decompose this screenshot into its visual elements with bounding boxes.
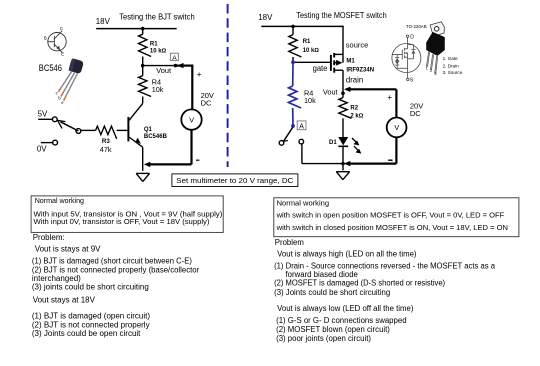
svg-text:A: A bbox=[299, 123, 304, 130]
svg-text:e: e bbox=[61, 100, 64, 105]
svg-text:gate: gate bbox=[313, 64, 328, 73]
svg-text:B: B bbox=[44, 36, 47, 41]
node 0V terminal bbox=[37, 140, 58, 153]
svg-text:c: c bbox=[56, 90, 58, 95]
svg-text:10k: 10k bbox=[152, 85, 164, 94]
svg-text:Vout is always high (LED on a: Vout is always high (LED on all the time… bbox=[277, 249, 417, 258]
svg-text:47k: 47k bbox=[100, 145, 112, 154]
svg-text:Problem: Problem bbox=[275, 238, 304, 247]
svg-text:(3) poor joints (open circuit): (3) poor joints (open circuit) bbox=[276, 334, 371, 343]
note box: MOSFET normal working bbox=[274, 198, 519, 237]
svg-text:IRF9Z34N: IRF9Z34N bbox=[346, 67, 374, 73]
svg-text:S: S bbox=[410, 78, 414, 84]
transistor photo BC546 (TO-92 package) bbox=[39, 58, 84, 105]
wire: 18V rail (right) bbox=[261, 25, 343, 29]
voltmeter V (right) bbox=[387, 89, 424, 163]
wire: voltmeter - lead (right) with arrow bbox=[344, 160, 397, 166]
svg-text:V: V bbox=[394, 123, 399, 132]
svg-text:2 kΩ: 2 kΩ bbox=[350, 114, 363, 120]
svg-text:R1: R1 bbox=[150, 41, 158, 47]
svg-text:D: D bbox=[410, 34, 414, 40]
wire: gate wire bbox=[293, 61, 330, 63]
svg-text:BC546: BC546 bbox=[39, 63, 62, 73]
svg-text:Set multimeter to 20 V range,: Set multimeter to 20 V range, DC bbox=[176, 176, 293, 185]
svg-text:2. Drain: 2. Drain bbox=[443, 63, 460, 68]
svg-text:18V: 18V bbox=[258, 13, 273, 22]
svg-text:(2) MOSFET is damaged (D-S sho: (2) MOSFET is damaged (D-S shorted or re… bbox=[274, 278, 445, 287]
svg-text:(1) BJT is damaged (open circu: (1) BJT is damaged (open circuit) bbox=[32, 312, 150, 321]
svg-text:2: 2 bbox=[430, 68, 433, 73]
BJT symbol icon (BC546) bbox=[48, 31, 66, 53]
svg-text:DC: DC bbox=[201, 99, 212, 108]
transistor Q1 BC546B bbox=[128, 103, 167, 147]
node A box (left) bbox=[170, 53, 178, 62]
svg-text:DC: DC bbox=[410, 109, 421, 118]
svg-text:Testing the MOSFET switch: Testing the MOSFET switch bbox=[296, 11, 386, 20]
wire: emitter to ground (left) bbox=[142, 147, 144, 171]
LED D1 bbox=[329, 137, 361, 154]
resistor R3 47k bbox=[81, 126, 128, 154]
divider dashed line bbox=[227, 4, 229, 167]
text: BJT problems bbox=[32, 233, 200, 338]
svg-text:R2: R2 bbox=[350, 105, 358, 111]
svg-text:(3) joints could be short circ: (3) joints could be short circuiting bbox=[32, 283, 149, 292]
resistor R1 (right) bbox=[289, 26, 320, 61]
svg-text:Vout is stays at 9V: Vout is stays at 9V bbox=[35, 245, 101, 254]
svg-text:1. Gate: 1. Gate bbox=[443, 56, 459, 61]
wire: voltmeter - lead (left) with arrow bbox=[144, 130, 200, 167]
switch (right) bbox=[279, 127, 303, 164]
wire: LED to bottom rail bbox=[342, 146, 344, 170]
svg-text:3: 3 bbox=[434, 71, 437, 76]
svg-text:With input 0V, transistor is O: With input 0V, transistor is OFF, Vout =… bbox=[34, 218, 210, 226]
node 5V terminal bbox=[38, 110, 58, 122]
resistor R1 (left) bbox=[139, 29, 167, 66]
svg-text:18V: 18V bbox=[96, 17, 111, 26]
svg-text:Q1: Q1 bbox=[144, 127, 153, 133]
svg-text:drain: drain bbox=[346, 75, 363, 84]
node A box (right) bbox=[297, 121, 306, 130]
svg-text:With input 5V, transistor is O: With input 5V, transistor is ON , Vout =… bbox=[34, 210, 223, 218]
svg-text:TO-220AB: TO-220AB bbox=[406, 24, 427, 29]
svg-text:10k: 10k bbox=[304, 96, 316, 105]
svg-text:Testing the BJT switch: Testing the BJT switch bbox=[119, 11, 195, 21]
svg-text:with switch in closed position: with switch in closed position MOSFET is… bbox=[276, 223, 508, 232]
svg-text:V: V bbox=[189, 115, 194, 124]
svg-text:0V: 0V bbox=[37, 145, 47, 154]
svg-text:interchanged): interchanged) bbox=[32, 274, 81, 283]
svg-text:Vout: Vout bbox=[323, 88, 338, 97]
wire: 18V rail (left) bbox=[96, 27, 177, 31]
svg-text:Problem:: Problem: bbox=[33, 233, 65, 242]
svg-text:Vout stays at 18V: Vout stays at 18V bbox=[33, 296, 96, 305]
ground (left) bbox=[136, 173, 149, 181]
svg-text:5V: 5V bbox=[38, 110, 48, 119]
node Vout (right) + voltmeter + lead bbox=[323, 87, 397, 103]
svg-text:Vout is always low (LED off al: Vout is always low (LED off all the time… bbox=[277, 304, 414, 313]
svg-text:A: A bbox=[172, 55, 177, 62]
svg-text:R3: R3 bbox=[102, 138, 110, 145]
svg-text:M1: M1 bbox=[346, 58, 355, 64]
resistor R4 (left) bbox=[139, 66, 164, 104]
TO-220 package drawing bbox=[427, 22, 445, 56]
note box: Set multimeter bbox=[172, 174, 298, 187]
note box: BJT normal working bbox=[31, 196, 223, 233]
svg-text:(1) BJT is damaged (short circ: (1) BJT is damaged (short circuit betwee… bbox=[32, 257, 192, 266]
voltmeter V (left) bbox=[181, 91, 214, 130]
svg-text:Normal working: Normal working bbox=[277, 198, 329, 207]
svg-text:R1: R1 bbox=[303, 39, 311, 45]
svg-text:(1) G-S or G- D connections sw: (1) G-S or G- D connections swapped bbox=[276, 316, 406, 325]
svg-text:3. Source: 3. Source bbox=[443, 70, 463, 75]
wire: bottom rail (right) bbox=[302, 162, 345, 166]
svg-text:C: C bbox=[60, 26, 63, 31]
svg-text:source: source bbox=[346, 41, 369, 50]
svg-text:with switch in open position M: with switch in open position MOSFET is O… bbox=[276, 211, 505, 220]
switch arm (left) with arrow bbox=[58, 120, 81, 133]
svg-text:(2) MOSFET blown (open circuit: (2) MOSFET blown (open circuit) bbox=[276, 325, 390, 334]
node Vout (left): wire with junction dots bbox=[141, 64, 177, 75]
svg-text:D1: D1 bbox=[329, 140, 337, 146]
svg-text:BC546B: BC546B bbox=[144, 134, 168, 140]
text: MOSFET problems bbox=[274, 238, 496, 343]
svg-text:(3) Joints could be open circu: (3) Joints could be open circuit bbox=[32, 329, 141, 338]
svg-text:1: 1 bbox=[426, 66, 429, 71]
resistor R4 (right, blue) bbox=[289, 60, 317, 127]
svg-text:+: + bbox=[197, 69, 202, 79]
svg-text:Normal working: Normal working bbox=[35, 197, 84, 205]
svg-text:Vout: Vout bbox=[156, 66, 171, 75]
svg-text:E: E bbox=[61, 51, 64, 56]
svg-text:10 kΩ: 10 kΩ bbox=[150, 49, 167, 55]
svg-text:(3) Joints could be short circ: (3) Joints could be short circuiting bbox=[274, 288, 390, 297]
ground (right) bbox=[336, 172, 349, 180]
svg-text:+: + bbox=[387, 92, 392, 102]
MOSFET M1 IRF9Z34N bbox=[331, 26, 343, 97]
resistor R2 2k bbox=[339, 98, 364, 137]
wire: voltmeter + lead (left) with arrow bbox=[177, 63, 202, 110]
svg-text:10 kΩ: 10 kΩ bbox=[303, 48, 320, 54]
